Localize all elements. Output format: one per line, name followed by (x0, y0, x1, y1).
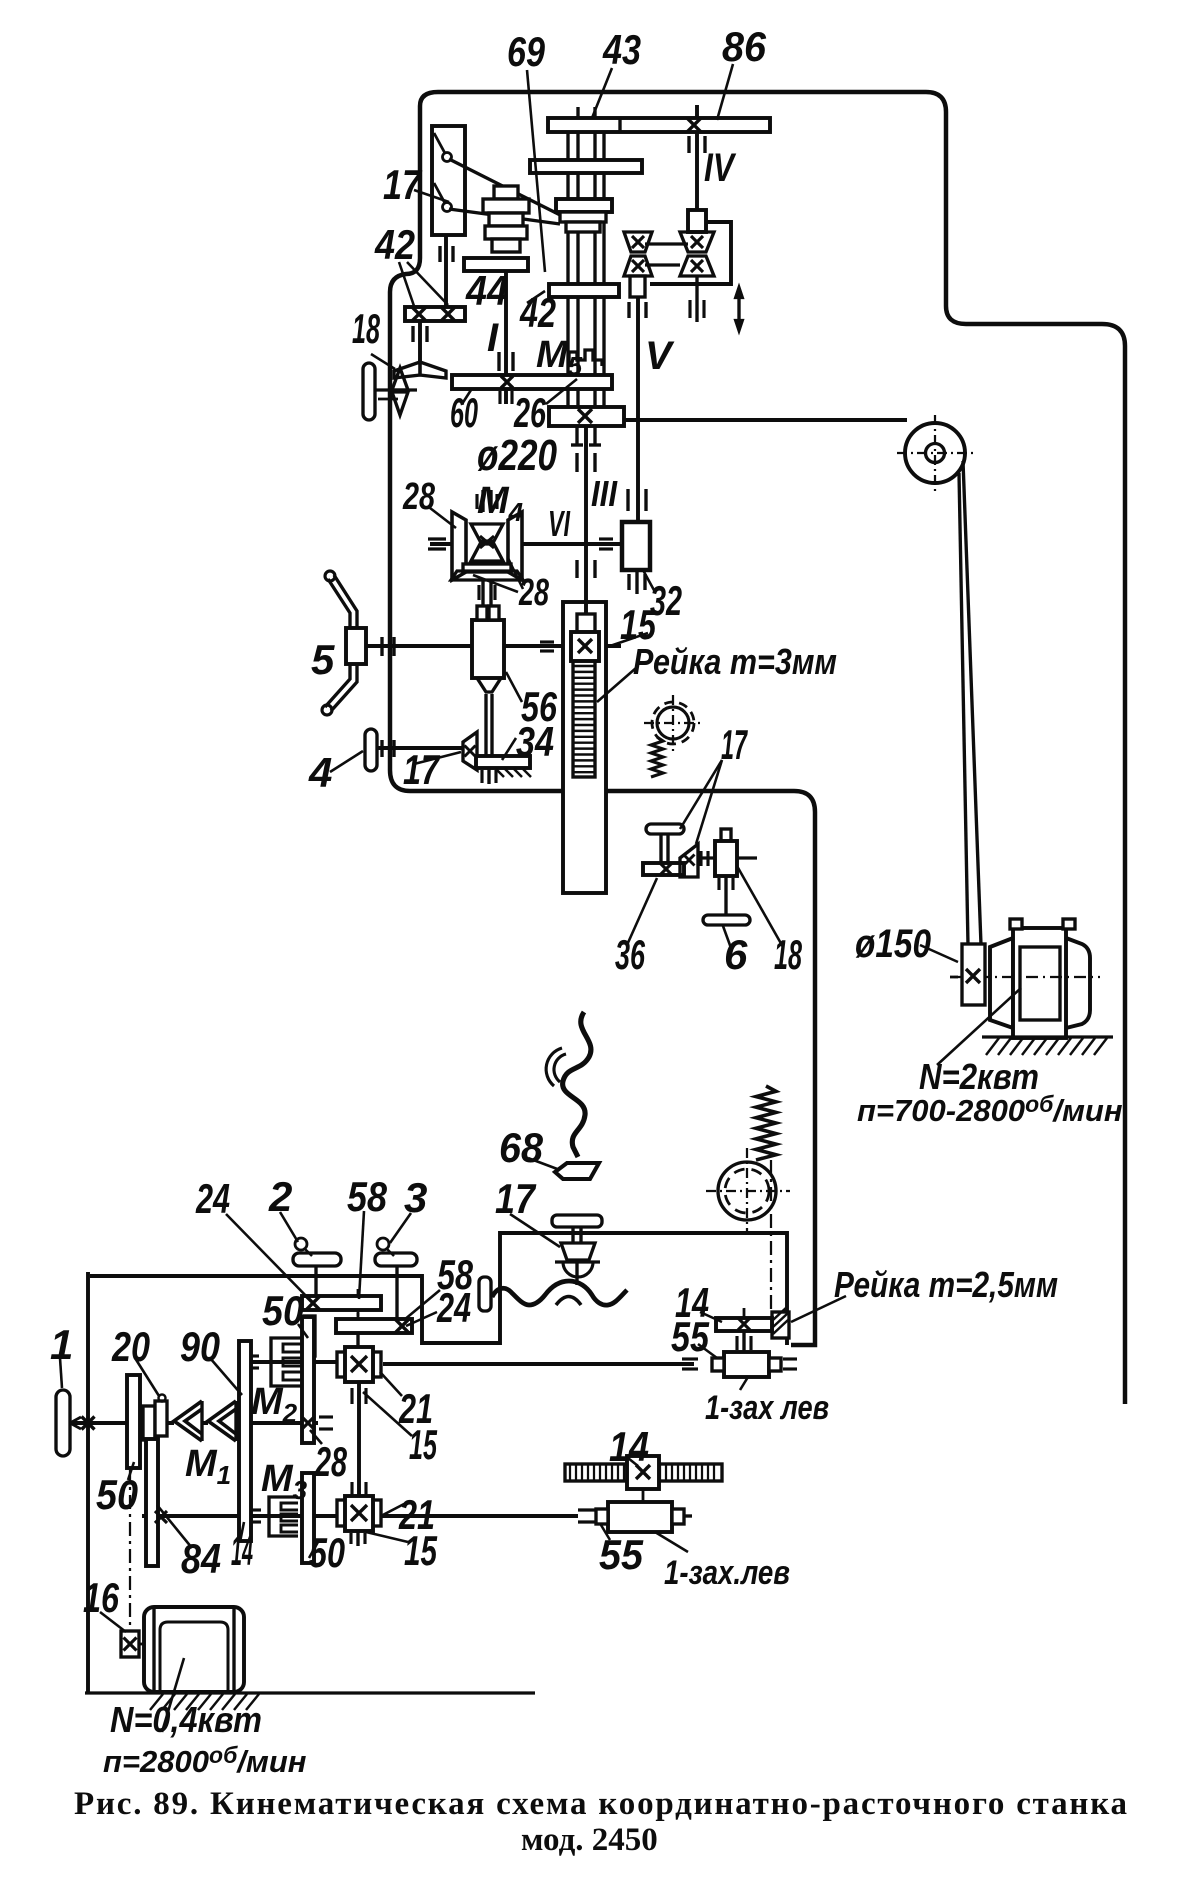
svg-text:42: 42 (374, 221, 415, 268)
svg-text:Рис. 89. Кинематическая схема: Рис. 89. Кинематическая схема координатн… (74, 1786, 1127, 1822)
svg-text:Рейка m=3мм: Рейка m=3мм (633, 641, 837, 682)
svg-text:ø220: ø220 (477, 431, 557, 480)
svg-text:17: 17 (403, 746, 440, 793)
svg-text:90: 90 (180, 1323, 220, 1370)
svg-text:24: 24 (195, 1175, 230, 1222)
svg-text:69: 69 (507, 28, 546, 75)
svg-text:50: 50 (309, 1529, 345, 1576)
svg-text:мод. 2450: мод. 2450 (521, 1822, 658, 1858)
svg-text:п=2800об/мин: п=2800об/мин (103, 1742, 307, 1779)
svg-text:50: 50 (96, 1471, 138, 1518)
svg-text:III: III (591, 473, 618, 514)
svg-text:36: 36 (615, 931, 645, 978)
svg-text:2: 2 (268, 1173, 292, 1220)
svg-text:N=2квт: N=2квт (919, 1056, 1039, 1097)
svg-text:50: 50 (262, 1287, 304, 1334)
svg-text:18: 18 (352, 305, 380, 352)
svg-text:15: 15 (404, 1527, 437, 1574)
svg-text:IV: IV (704, 146, 737, 190)
svg-text:26: 26 (513, 389, 546, 436)
svg-text:1: 1 (50, 1321, 73, 1368)
svg-text:5: 5 (311, 636, 335, 683)
svg-text:14: 14 (231, 1527, 253, 1574)
svg-text:18: 18 (774, 931, 802, 978)
svg-text:I: I (487, 316, 499, 360)
svg-text:86: 86 (722, 23, 767, 70)
svg-text:84: 84 (181, 1535, 221, 1582)
svg-text:24: 24 (436, 1284, 471, 1331)
svg-text:17: 17 (383, 161, 422, 208)
svg-text:3: 3 (404, 1174, 427, 1221)
svg-text:п=700-2800об/мин: п=700-2800об/мин (857, 1091, 1123, 1128)
svg-text:60: 60 (450, 389, 478, 436)
svg-text:32: 32 (650, 577, 682, 624)
svg-text:4: 4 (308, 749, 332, 796)
svg-text:17: 17 (721, 721, 748, 768)
svg-text:ø150: ø150 (855, 922, 931, 966)
svg-text:1-зах.лев: 1-зах.лев (664, 1554, 790, 1592)
svg-text:20: 20 (111, 1323, 150, 1370)
svg-text:68: 68 (499, 1124, 544, 1171)
svg-text:16: 16 (83, 1574, 119, 1621)
svg-text:17: 17 (495, 1175, 536, 1222)
svg-text:28: 28 (518, 572, 549, 614)
svg-text:Рейка m=2,5мм: Рейка m=2,5мм (834, 1264, 1058, 1305)
svg-text:14: 14 (609, 1423, 649, 1470)
svg-text:N=0,4квт: N=0,4квт (110, 1699, 262, 1740)
svg-text:V: V (645, 334, 675, 378)
svg-text:15: 15 (409, 1421, 437, 1468)
svg-text:28: 28 (314, 1438, 347, 1485)
svg-text:34: 34 (516, 718, 554, 765)
svg-text:6: 6 (724, 931, 748, 978)
svg-text:28: 28 (402, 476, 435, 518)
svg-text:43: 43 (602, 26, 641, 73)
svg-text:58: 58 (347, 1173, 388, 1220)
svg-text:42: 42 (519, 289, 556, 336)
svg-text:VI: VI (548, 503, 571, 544)
svg-text:55: 55 (671, 1313, 710, 1360)
svg-text:55: 55 (599, 1531, 644, 1578)
svg-text:1-зах лев: 1-зах лев (705, 1389, 829, 1427)
svg-text:44: 44 (465, 267, 508, 314)
